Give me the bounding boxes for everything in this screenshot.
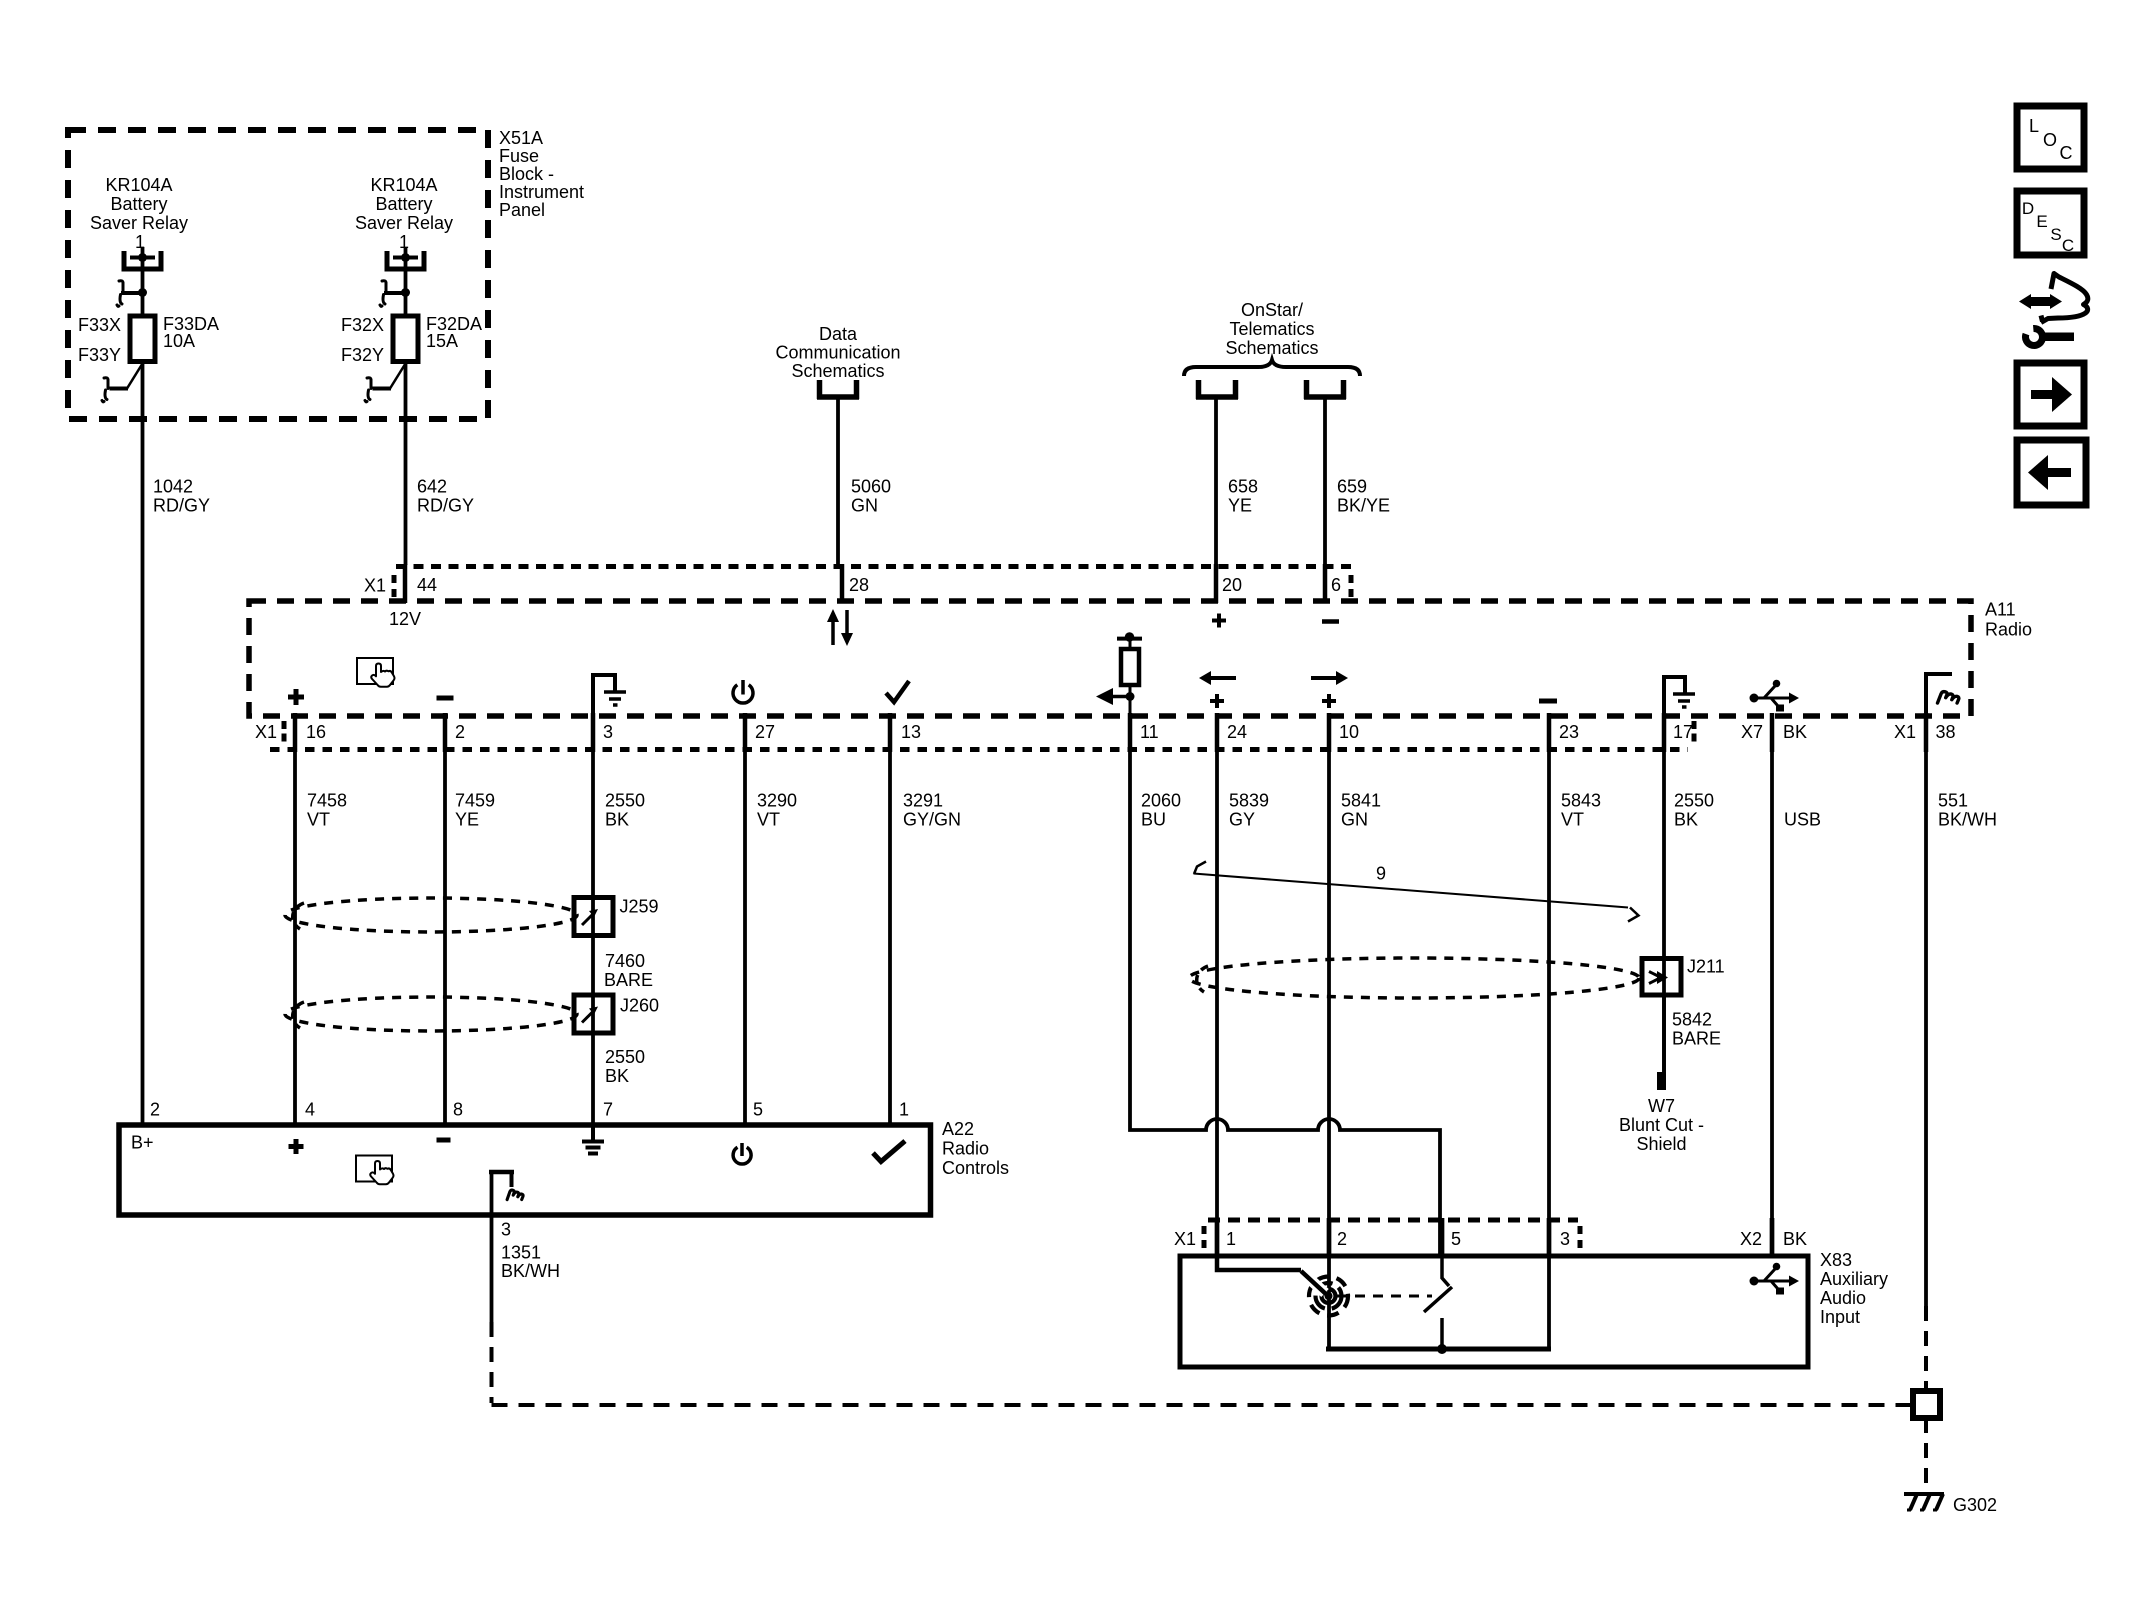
svg-text:Instrument: Instrument (499, 182, 584, 202)
svg-text:Saver Relay: Saver Relay (355, 213, 453, 233)
svg-text:551: 551 (1938, 791, 1968, 811)
svg-text:17: 17 (1673, 722, 1693, 742)
svg-text:2060: 2060 (1141, 791, 1181, 811)
svg-text:10: 10 (1339, 722, 1359, 742)
svg-text:Schematics: Schematics (1225, 338, 1318, 358)
svg-text:W7: W7 (1648, 1096, 1675, 1116)
svg-text:8: 8 (453, 1100, 463, 1120)
svg-text:24: 24 (1227, 722, 1247, 742)
svg-text:E: E (2036, 212, 2047, 231)
svg-text:RD/GY: RD/GY (417, 496, 474, 516)
svg-text:BK: BK (1674, 810, 1698, 830)
svg-text:X83: X83 (1820, 1250, 1852, 1270)
svg-text:BK: BK (605, 1066, 629, 1086)
svg-text:F32Y: F32Y (341, 345, 384, 365)
svg-text:1: 1 (1226, 1229, 1236, 1249)
svg-text:Schematics: Schematics (791, 361, 884, 381)
svg-text:KR104A: KR104A (105, 175, 172, 195)
svg-text:3291: 3291 (903, 791, 943, 811)
svg-text:5841: 5841 (1341, 791, 1381, 811)
svg-text:X2: X2 (1740, 1229, 1762, 1249)
svg-text:F33X: F33X (78, 315, 121, 335)
svg-text:1351: 1351 (501, 1243, 541, 1263)
svg-text:27: 27 (755, 722, 775, 742)
svg-text:Communication: Communication (775, 343, 900, 363)
svg-text:J259: J259 (620, 897, 659, 917)
svg-text:Data: Data (819, 324, 858, 344)
svg-text:2: 2 (455, 722, 465, 742)
svg-text:X7: X7 (1741, 722, 1763, 742)
svg-text:C: C (2060, 143, 2073, 163)
svg-text:USB: USB (1784, 810, 1821, 830)
svg-text:3: 3 (603, 722, 613, 742)
svg-text:J260: J260 (620, 996, 659, 1016)
svg-text:GY: GY (1229, 810, 1255, 830)
svg-text:Auxiliary: Auxiliary (1820, 1269, 1888, 1289)
svg-text:Radio: Radio (942, 1139, 989, 1159)
svg-text:20: 20 (1222, 575, 1242, 595)
svg-text:16: 16 (306, 722, 326, 742)
svg-text:5060: 5060 (851, 477, 891, 497)
svg-text:7458: 7458 (307, 791, 347, 811)
svg-text:BU: BU (1141, 810, 1166, 830)
svg-text:5: 5 (1451, 1229, 1461, 1249)
svg-text:28: 28 (849, 575, 869, 595)
svg-text:5: 5 (753, 1100, 763, 1120)
svg-text:BK/WH: BK/WH (501, 1261, 560, 1281)
svg-text:7: 7 (603, 1100, 613, 1120)
svg-text:13: 13 (901, 722, 921, 742)
svg-text:15A: 15A (426, 331, 458, 351)
svg-text:Input: Input (1820, 1307, 1860, 1327)
svg-text:642: 642 (417, 477, 447, 497)
svg-text:2: 2 (1337, 1229, 1347, 1249)
svg-text:B+: B+ (131, 1133, 154, 1153)
svg-text:BK/WH: BK/WH (1938, 810, 1997, 830)
svg-text:2: 2 (150, 1100, 160, 1120)
svg-text:12V: 12V (389, 609, 421, 629)
svg-text:Audio: Audio (1820, 1288, 1866, 1308)
svg-text:VT: VT (757, 810, 780, 830)
svg-text:RD/GY: RD/GY (153, 496, 210, 516)
svg-text:1: 1 (899, 1100, 909, 1120)
svg-text:Battery: Battery (375, 194, 432, 214)
svg-text:2550: 2550 (605, 791, 645, 811)
svg-text:YE: YE (1228, 496, 1252, 516)
svg-text:6: 6 (1331, 575, 1341, 595)
svg-text:7460: 7460 (605, 951, 645, 971)
svg-text:O: O (2043, 130, 2057, 150)
svg-text:Battery: Battery (110, 194, 167, 214)
svg-text:5839: 5839 (1229, 791, 1269, 811)
svg-text:KR104A: KR104A (370, 175, 437, 195)
svg-text:X1: X1 (1894, 722, 1916, 742)
svg-text:BARE: BARE (604, 970, 653, 990)
svg-text:VT: VT (1561, 810, 1584, 830)
svg-text:10A: 10A (163, 331, 195, 351)
svg-text:5843: 5843 (1561, 791, 1601, 811)
svg-text:2550: 2550 (605, 1047, 645, 1067)
svg-text:D: D (2022, 199, 2034, 218)
svg-text:YE: YE (455, 810, 479, 830)
svg-text:X1: X1 (255, 722, 277, 742)
svg-text:658: 658 (1228, 477, 1258, 497)
svg-text:X1: X1 (364, 576, 386, 596)
svg-text:X1: X1 (1174, 1229, 1196, 1249)
svg-text:Controls: Controls (942, 1158, 1009, 1178)
svg-text:Radio: Radio (1985, 620, 2032, 640)
svg-text:X51A: X51A (499, 128, 543, 148)
svg-text:2550: 2550 (1674, 791, 1714, 811)
svg-text:BARE: BARE (1672, 1029, 1721, 1049)
svg-text:BK: BK (1783, 722, 1807, 742)
svg-text:3: 3 (1560, 1229, 1570, 1249)
svg-text:3290: 3290 (757, 791, 797, 811)
svg-text:F33Y: F33Y (78, 345, 121, 365)
svg-text:Shield: Shield (1636, 1134, 1686, 1154)
svg-text:1: 1 (399, 232, 409, 252)
svg-text:BK/YE: BK/YE (1337, 496, 1390, 516)
svg-text:1042: 1042 (153, 477, 193, 497)
svg-text:9: 9 (1376, 864, 1386, 884)
svg-text:23: 23 (1559, 722, 1579, 742)
svg-text:659: 659 (1337, 477, 1367, 497)
svg-text:Blunt Cut -: Blunt Cut - (1619, 1115, 1704, 1135)
svg-text:G302: G302 (1953, 1495, 1997, 1515)
svg-text:11: 11 (1140, 722, 1159, 742)
svg-text:1: 1 (135, 232, 145, 252)
svg-text:F32X: F32X (341, 315, 384, 335)
svg-text:Saver Relay: Saver Relay (90, 213, 188, 233)
svg-text:Telematics: Telematics (1229, 319, 1314, 339)
svg-text:A11: A11 (1985, 600, 2016, 620)
svg-text:BK: BK (605, 810, 629, 830)
svg-text:Fuse: Fuse (499, 146, 539, 166)
svg-text:7459: 7459 (455, 791, 495, 811)
svg-text:GN: GN (851, 496, 878, 516)
svg-text:38: 38 (1936, 722, 1956, 742)
svg-text:Block -: Block - (499, 164, 554, 184)
svg-text:44: 44 (417, 575, 437, 595)
svg-text:3: 3 (501, 1220, 511, 1240)
svg-text:5842: 5842 (1672, 1010, 1712, 1030)
svg-text:OnStar/: OnStar/ (1241, 300, 1303, 320)
svg-text:GY/GN: GY/GN (903, 810, 961, 830)
svg-text:J211: J211 (1687, 957, 1725, 977)
svg-text:C: C (2062, 236, 2074, 255)
svg-text:L: L (2029, 116, 2039, 136)
svg-text:VT: VT (307, 810, 330, 830)
svg-text:GN: GN (1341, 810, 1368, 830)
svg-text:BK: BK (1783, 1229, 1807, 1249)
svg-text:S: S (2050, 225, 2061, 244)
svg-text:4: 4 (305, 1100, 315, 1120)
svg-text:A22: A22 (942, 1119, 974, 1139)
svg-text:Panel: Panel (499, 200, 545, 220)
